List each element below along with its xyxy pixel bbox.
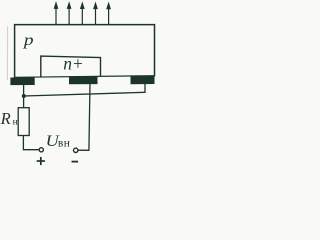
svg-text:н: н <box>13 118 18 128</box>
svg-text:R: R <box>0 109 11 128</box>
svg-text:n+: n+ <box>63 53 83 73</box>
svg-text:p: p <box>22 31 34 49</box>
svg-text:вн: вн <box>58 138 70 150</box>
